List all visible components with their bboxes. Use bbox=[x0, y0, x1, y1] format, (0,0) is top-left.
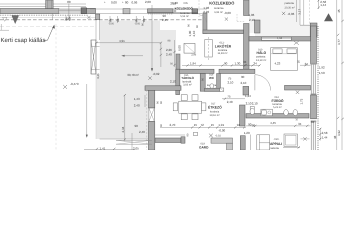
svg-text:34: 34 bbox=[311, 120, 315, 124]
svg-text:parketta: parketta bbox=[270, 147, 280, 150]
svg-text:1,20: 1,20 bbox=[244, 131, 250, 135]
svg-text:2,96: 2,96 bbox=[191, 54, 197, 57]
east wall window 2 bbox=[311, 121, 317, 151]
svg-text:2,10: 2,10 bbox=[241, 81, 247, 85]
west wall vertical band bbox=[148, 90, 154, 108]
svg-text:2,40: 2,40 bbox=[139, 130, 145, 134]
svg-text:3,77: 3,77 bbox=[337, 39, 341, 45]
dashed lines in 011 bbox=[205, 40, 213, 58]
svg-text:39,78 m²: 39,78 m² bbox=[127, 73, 139, 77]
svg-text:-0,00: -0,00 bbox=[224, 11, 231, 15]
svg-text:1,04: 1,04 bbox=[277, 37, 283, 40]
svg-text:0,00: 0,00 bbox=[111, 1, 117, 5]
svg-text:2,58: 2,58 bbox=[322, 131, 328, 135]
svg-text:94: 94 bbox=[237, 123, 241, 127]
svg-text:2,10: 2,10 bbox=[192, 30, 196, 36]
svg-text:HÁLÓ: HÁLÓ bbox=[257, 51, 267, 55]
dashed door line bbox=[198, 0, 200, 17]
leader line from 2,00 down to terrace bbox=[151, 5, 153, 70]
wall piece bbox=[255, 20, 261, 33]
svg-text:KÖZLEKEDŐ: KÖZLEKEDŐ bbox=[175, 6, 194, 10]
east wall mid pier bbox=[311, 95, 317, 119]
FURDO south wall bbox=[246, 114, 309, 118]
door panel square bbox=[184, 43, 195, 53]
thin wall top right bbox=[299, 0, 301, 25]
window in west wall bbox=[149, 108, 154, 122]
level triangle left bbox=[11, 15, 19, 24]
svg-text:1,92: 1,92 bbox=[319, 65, 325, 69]
toilet left bbox=[250, 107, 254, 110]
level cross right of armchair bbox=[303, 137, 306, 140]
svg-text:1,44: 1,44 bbox=[320, 3, 326, 7]
svg-text:15: 15 bbox=[194, 123, 198, 127]
wall KOZLEKEDO 005 west bbox=[203, 13, 207, 34]
door arc to HALO hall bbox=[255, 75, 271, 91]
svg-text:2,40: 2,40 bbox=[134, 103, 140, 107]
dark end block of band bbox=[81, 8, 87, 14]
svg-text:1,50: 1,50 bbox=[319, 71, 325, 75]
svg-text:2,26: 2,26 bbox=[203, 10, 209, 14]
dim cluster 1 bbox=[108, 16, 120, 25]
svg-text:2,10: 2,10 bbox=[246, 102, 252, 106]
svg-text:4,91: 4,91 bbox=[119, 39, 125, 43]
overhang lines top-left bbox=[0, 3, 86, 5]
svg-text:11,93 m²: 11,93 m² bbox=[218, 52, 228, 55]
svg-text:005: 005 bbox=[184, 2, 189, 5]
dashed jamb line bbox=[146, 90, 148, 150]
window symbol left wall bbox=[91, 40, 100, 74]
top right dims 2,58 / 1,44 bbox=[318, 0, 320, 9]
svg-text:-0,05: -0,05 bbox=[108, 22, 114, 25]
svg-text:90: 90 bbox=[241, 75, 245, 79]
hatched band right (room 005 north wall) bbox=[148, 9, 174, 13]
dashed vertical bbox=[309, 0, 311, 24]
insulation dotted column bbox=[317, 26, 319, 150]
wc + bidet at south wall bbox=[284, 110, 289, 116]
pier block bbox=[123, 9, 130, 14]
svg-text:2,15: 2,15 bbox=[162, 18, 168, 22]
svg-text:2,10: 2,10 bbox=[249, 18, 255, 22]
terrace bottom edge bbox=[100, 138, 148, 140]
svg-text:-0,479: -0,479 bbox=[70, 82, 79, 86]
svg-text:-010-: -010- bbox=[273, 138, 279, 141]
faint dash line below bbox=[0, 26, 95, 28]
leader arrow in terrace bbox=[123, 55, 143, 57]
svg-text:90: 90 bbox=[135, 124, 139, 128]
small cabinet bbox=[194, 132, 198, 135]
wall stub top bbox=[46, 0, 53, 9]
level triangle right bbox=[324, 13, 333, 21]
dim line under bed row bbox=[240, 64, 250, 66]
svg-text:2,10: 2,10 bbox=[252, 102, 258, 106]
south wall band of terrace room bbox=[145, 86, 181, 91]
svg-text:34: 34 bbox=[298, 122, 302, 126]
svg-text:-0,02: -0,02 bbox=[215, 135, 221, 138]
svg-text:2,26: 2,26 bbox=[166, 48, 172, 52]
svg-text:WC: WC bbox=[209, 76, 215, 80]
svg-text:90: 90 bbox=[224, 61, 228, 65]
svg-text:34: 34 bbox=[243, 60, 247, 64]
svg-text:4,23: 4,23 bbox=[275, 61, 281, 65]
svg-text:2,00: 2,00 bbox=[145, 0, 151, 4]
svg-text:2,70: 2,70 bbox=[170, 123, 176, 127]
small level cross near band end bbox=[87, 16, 90, 19]
-0,47 level bbox=[63, 82, 79, 89]
svg-text:8,45: 8,45 bbox=[97, 73, 100, 79]
svg-text:2,10: 2,10 bbox=[170, 79, 176, 83]
insulation dots under band bbox=[148, 13, 173, 15]
long horizontal wall y69 bbox=[176, 69, 214, 73]
wall east of ETKEZO (segments) bbox=[243, 86, 249, 95]
wardrobe furniture bbox=[211, 138, 233, 143]
wall 016/017 bbox=[217, 74, 221, 90]
svg-text:34: 34 bbox=[254, 61, 258, 65]
svg-text:2,34: 2,34 bbox=[121, 126, 125, 132]
corner mark bottom-left bbox=[0, 29, 9, 31]
door gap + jamb piece bbox=[192, 9, 198, 14]
svg-text:2,10: 2,10 bbox=[228, 80, 234, 84]
dim cluster 2 bbox=[134, 16, 146, 25]
arrowed dim line left of terrace bbox=[86, 84, 88, 136]
wc fixture bbox=[205, 88, 221, 91]
svg-text:1,98: 1,98 bbox=[203, 6, 209, 10]
door arc 013 bbox=[199, 15, 206, 23]
band bottom edge line bbox=[148, 12, 198, 14]
svg-text:72: 72 bbox=[201, 123, 205, 127]
washbasin double bbox=[261, 109, 273, 116]
svg-text:3,83 m²: 3,83 m² bbox=[183, 84, 192, 87]
svg-text:parketta: parketta bbox=[285, 2, 295, 5]
opening head lines x90-147 bbox=[90, 8, 207, 10]
wall horizontal under 013 bbox=[203, 30, 244, 34]
left wall vertical lines bbox=[96, 14, 100, 20]
svg-text:1,44: 1,44 bbox=[322, 135, 328, 139]
svg-text:80: 80 bbox=[67, 0, 71, 4]
svg-text:13,19 m²: 13,19 m² bbox=[256, 59, 266, 62]
top-left wall band hatched bbox=[0, 9, 59, 14]
ETKEZO furniture: table + chairs bbox=[179, 101, 202, 113]
svg-text:1,94: 1,94 bbox=[190, 61, 196, 65]
svg-text:75: 75 bbox=[227, 94, 231, 98]
dim cluster 0 bbox=[65, 16, 72, 22]
svg-text:2,40: 2,40 bbox=[166, 53, 172, 57]
svg-text:-0,06: -0,06 bbox=[288, 12, 295, 16]
svg-text:5,56 m²: 5,56 m² bbox=[180, 15, 189, 18]
svg-text:6,00: 6,00 bbox=[178, 45, 182, 51]
svg-text:80: 80 bbox=[125, 0, 129, 4]
svg-text:2,40: 2,40 bbox=[227, 100, 233, 104]
long faint dashed vertical bbox=[55, 24, 57, 150]
right margin dim lines bbox=[341, 0, 343, 150]
small outline triangle bbox=[3, 17, 8, 21]
svg-text:1,06: 1,06 bbox=[249, 13, 255, 17]
svg-text:kerámia: kerámia bbox=[210, 110, 220, 113]
insulation dashes under band bbox=[0, 14, 88, 16]
bed bbox=[271, 48, 298, 71]
chair left of table bbox=[173, 103, 177, 111]
ramp / stair run at south door bbox=[116, 133, 152, 150]
armchair bbox=[284, 134, 298, 146]
svg-text:0,06: 0,06 bbox=[132, 1, 138, 5]
svg-text:1,10: 1,10 bbox=[172, 1, 178, 5]
south wall band lower bbox=[155, 138, 181, 143]
top-right room floor fill bbox=[249, 0, 311, 37]
svg-text:15: 15 bbox=[211, 123, 215, 127]
svg-text:KÖZLEKEDŐ: KÖZLEKEDŐ bbox=[209, 1, 234, 6]
corner wall block bbox=[300, 25, 310, 27]
svg-text:-0,00: -0,00 bbox=[218, 128, 225, 132]
sofa bbox=[257, 135, 270, 150]
svg-text:1,73: 1,73 bbox=[300, 98, 304, 104]
svg-text:1,91: 1,91 bbox=[218, 123, 224, 127]
svg-text:Kerti csap kiállás: Kerti csap kiállás bbox=[1, 37, 46, 44]
svg-text:ÉTKEZŐ: ÉTKEZŐ bbox=[208, 106, 222, 110]
door hinge mark bbox=[174, 10, 176, 12]
terrace floor fill bbox=[96, 21, 181, 140]
svg-text:5,21 m²: 5,21 m² bbox=[273, 106, 282, 109]
svg-text:kerámia: kerámia bbox=[214, 7, 224, 10]
wall 015/016 bbox=[200, 74, 205, 92]
svg-text:1,43: 1,43 bbox=[134, 97, 140, 101]
svg-text:90: 90 bbox=[252, 124, 256, 128]
svg-text:1,24: 1,24 bbox=[245, 94, 251, 98]
wall 015 west bbox=[176, 69, 180, 94]
svg-text:GARD: GARD bbox=[199, 146, 209, 150]
svg-text:3,92: 3,92 bbox=[337, 130, 341, 136]
svg-text:4,45: 4,45 bbox=[270, 121, 276, 125]
svg-text:19,16 m²: 19,16 m² bbox=[210, 114, 220, 117]
svg-text:-0,05: -0,05 bbox=[134, 22, 140, 25]
right lower external dims bbox=[319, 128, 321, 141]
east wall window 1 bbox=[311, 63, 317, 96]
svg-text:45: 45 bbox=[337, 9, 341, 13]
east main wall upper bbox=[311, 26, 317, 64]
HALO north wall with window bbox=[249, 37, 311, 41]
faint line above bbox=[0, 16, 96, 18]
svg-text:3,17: 3,17 bbox=[298, 9, 302, 15]
svg-text:1,30: 1,30 bbox=[235, 61, 241, 65]
dashed eaves line bbox=[0, 19, 203, 21]
svg-text:LAKÓTÉR: LAKÓTÉR bbox=[215, 44, 232, 48]
svg-text:-0,02: -0,02 bbox=[153, 72, 160, 76]
wall east of 013 bbox=[244, 0, 250, 16]
svg-text:20,35 m²: 20,35 m² bbox=[285, 6, 295, 9]
svg-text:48: 48 bbox=[333, 135, 337, 139]
svg-text:6,96 m²: 6,96 m² bbox=[214, 11, 223, 14]
